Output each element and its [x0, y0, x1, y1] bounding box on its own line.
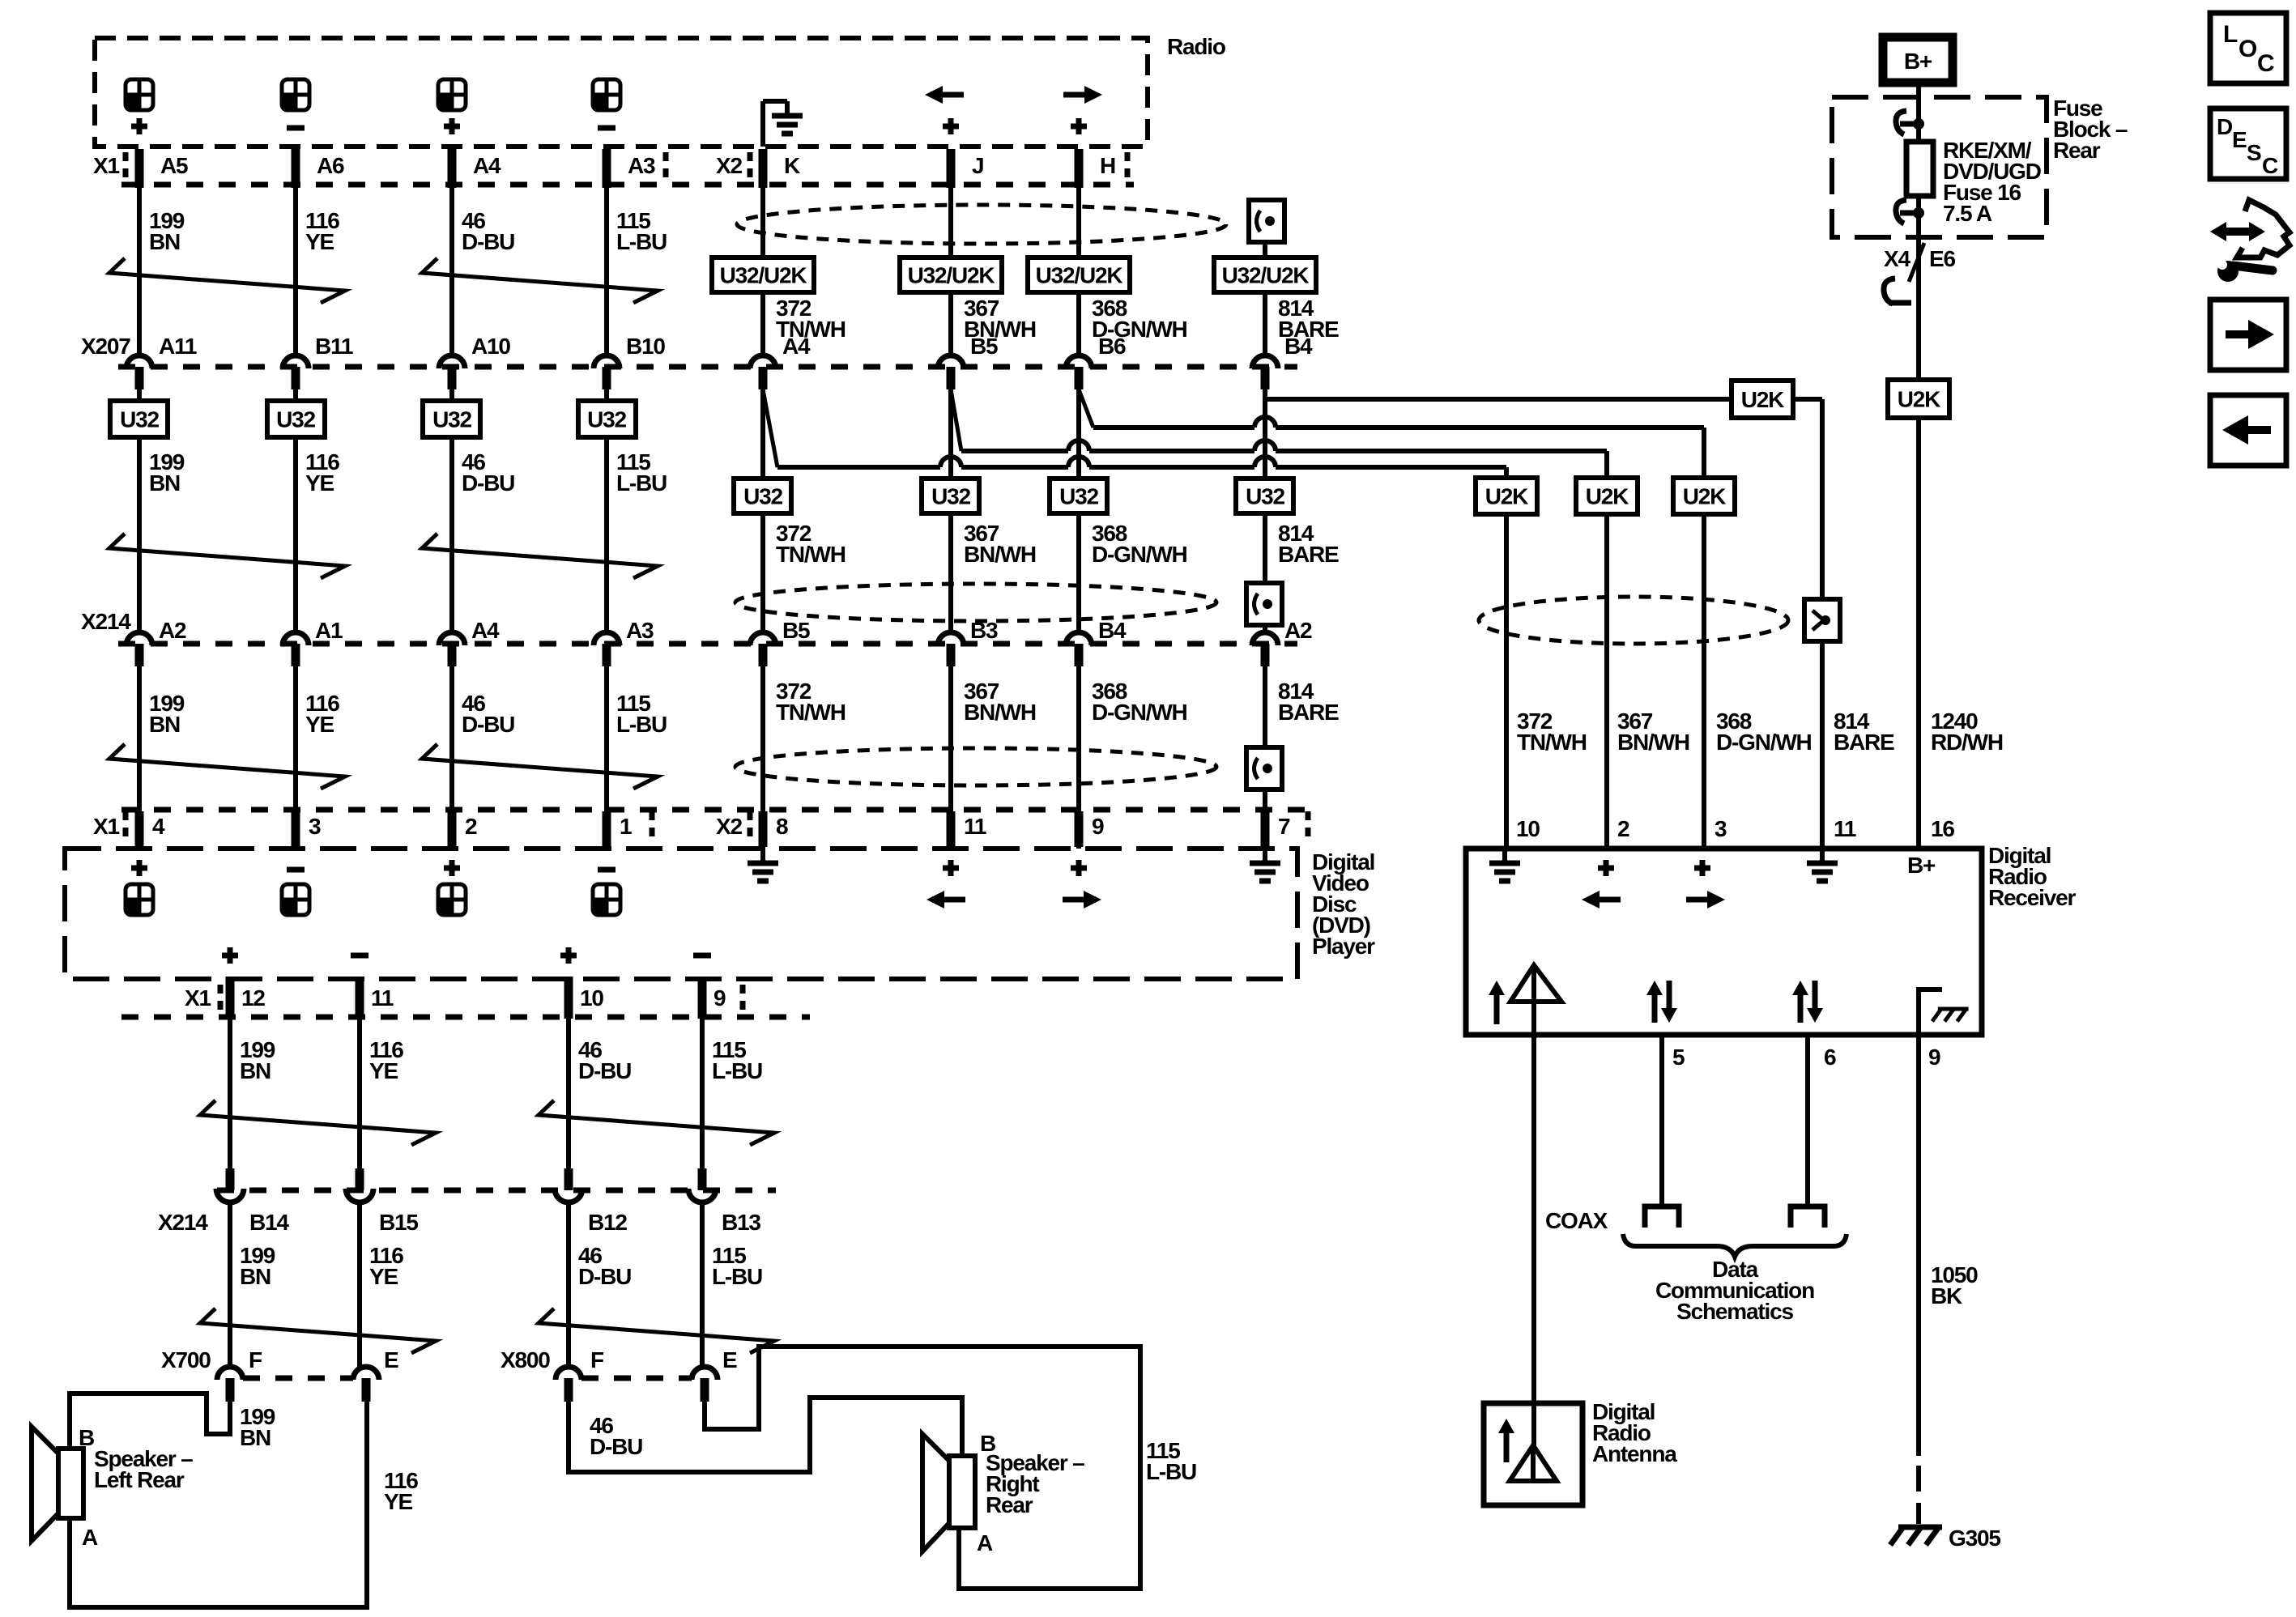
wire 1050 BK receiver pin 9 to ground [1916, 1035, 1921, 1456]
wire 199 BN X214 to DVD [137, 666, 142, 849]
svg-text:L-BU: L-BU [1146, 1459, 1196, 1484]
svg-text:YE: YE [369, 1264, 398, 1289]
DVD ground symbol pin 8 [760, 849, 765, 863]
X214 pin A3 bump [594, 632, 620, 645]
wire 116 YE speaker A to X700-E [70, 1402, 367, 1607]
data communication brace [1623, 1234, 1847, 1257]
svg-text:A: A [82, 1525, 98, 1550]
shield drain connector square row 1 [1249, 200, 1284, 242]
fuse block rear dashed box [1832, 97, 2047, 237]
svg-text:YE: YE [369, 1058, 398, 1083]
icon box forward arrow [2210, 300, 2286, 370]
DVD speaker icon col 4 [593, 884, 620, 915]
DVD top pin stub col 5 [759, 811, 768, 847]
receiver ground symbol pin 10 [1502, 849, 1507, 863]
speaker icon in radio col 2 [282, 79, 309, 110]
wire 1240 RD/WH U2K to receiver pin 16 [1916, 418, 1921, 849]
digital radio receiver box [1466, 849, 1982, 1035]
wire 367 BN/WH U2K to receiver pin 2 [1604, 514, 1609, 849]
svg-text:A4: A4 [782, 334, 811, 359]
chassis ground G305 symbol [1898, 1525, 1942, 1530]
speaker icon in radio col 1 [126, 79, 153, 110]
svg-text:E: E [722, 1347, 737, 1372]
wire 372 TN/WH X214 to DVD [760, 666, 765, 849]
X214 pin A4 bump [439, 632, 465, 645]
wire 115 L-BU speaker A to X800-E [705, 1347, 1140, 1589]
svg-text:Radio: Radio [1167, 34, 1226, 59]
svg-text:A2: A2 [159, 618, 186, 643]
receiver antenna symbol [1510, 965, 1561, 1002]
svg-text:L: L [2223, 21, 2238, 48]
svg-text:C: C [2257, 50, 2274, 77]
data link terminator pin 5 [1645, 1206, 1679, 1228]
svg-text:B4: B4 [1284, 334, 1313, 359]
svg-text:3: 3 [309, 814, 321, 839]
separator after A3 [663, 152, 669, 181]
connector X700 dashed line [243, 1376, 353, 1381]
svg-text:16: 16 [1931, 816, 1954, 841]
svg-text:11: 11 [964, 814, 986, 839]
svg-text:6: 6 [1824, 1045, 1836, 1070]
DVD player dashed enclosure box [65, 849, 1297, 979]
svg-text:1: 1 [620, 814, 632, 839]
svg-text:BN/WH: BN/WH [964, 700, 1036, 725]
wire 116 YE X214 to DVD [293, 666, 298, 849]
wire 368 D-GN/WH U32 to X214 [1076, 513, 1081, 631]
U32 option box col 2 [293, 389, 298, 401]
DVD bottom pin stub col 3 [564, 977, 573, 1019]
wire 367 BN/WH vertical X207 to U32 [948, 389, 953, 479]
option box U2K col 368 [1673, 478, 1735, 514]
DVD bottom polarity col 2 [351, 953, 368, 959]
svg-text:B6: B6 [1098, 334, 1126, 359]
svg-text:B11: B11 [315, 334, 353, 359]
X214 pin B15 stub [356, 1168, 364, 1190]
wire B+ to fuse block [1916, 83, 1921, 142]
speaker right rear icon [949, 1456, 975, 1528]
wire 814 BARE vertical X207 to U32 [1263, 389, 1267, 479]
DVD right arrow [1063, 897, 1085, 903]
svg-text:U32: U32 [1246, 484, 1284, 509]
U32 option box col 3 [449, 389, 454, 401]
wire 368 D-GN/WH U2K to receiver pin 3 [1702, 514, 1706, 849]
polarity sign [598, 126, 616, 131]
X214 pin B4 bump [1066, 632, 1092, 645]
wire 368 D-GN/WH radio to U32/U2K [1076, 188, 1081, 257]
wire 199 BN X700-F to speaker B [70, 1394, 230, 1449]
wire fuse to clip lower [1916, 196, 1921, 237]
receiver plus sign pin 3 [1694, 866, 1710, 871]
X214 pin B3 bump [938, 632, 964, 645]
svg-text:U32: U32 [276, 407, 315, 432]
svg-text:BN: BN [240, 1264, 270, 1289]
svg-text:U2K: U2K [1683, 484, 1726, 509]
option box U32/U2K col 6 [900, 257, 1002, 292]
bus continues to corner [1793, 397, 1822, 402]
svg-text:X2: X2 [716, 153, 742, 178]
svg-text:U32: U32 [120, 407, 159, 432]
connector X800 dashed line [581, 1376, 692, 1381]
option box U32/U2K col 8 [1214, 257, 1316, 292]
X207 pin B6 bump [1066, 355, 1092, 368]
option box U32/U2K col 5 [712, 257, 814, 292]
svg-text:A2: A2 [1284, 618, 1312, 643]
svg-text:U32/U2K: U32/U2K [720, 263, 807, 288]
svg-text:A11: A11 [159, 334, 197, 359]
svg-text:B13: B13 [722, 1210, 760, 1235]
wire 367 diagonal branch [951, 389, 961, 451]
X214 pin A1 bump [283, 632, 309, 645]
icon box LOC [2210, 13, 2286, 83]
svg-text:COAX: COAX [1545, 1208, 1608, 1233]
twisted pair symbol lower row2 cols 1-2 [200, 1308, 436, 1353]
separator X1 bottom [218, 985, 224, 1014]
receiver ground symbol pin 11 [1820, 849, 1825, 863]
svg-text:BARE: BARE [1278, 700, 1339, 725]
fuse clip lower [1896, 200, 1906, 223]
X207 pin B11 bump [283, 355, 309, 368]
svg-text:U2K: U2K [1741, 387, 1784, 412]
wire 46 D-BU X214 to DVD [449, 666, 454, 849]
speaker left rear icon [58, 1449, 83, 1518]
lower wire 199 BN DVD to X214 [228, 1019, 232, 1170]
option box U2K on battery feed [1888, 380, 1949, 418]
icon box back arrow [2210, 395, 2286, 466]
svg-text:L-BU: L-BU [616, 470, 667, 496]
svg-text:BARE: BARE [1834, 730, 1894, 755]
X214 pin B15 bump [346, 1189, 373, 1202]
receiver left arrow [1598, 897, 1621, 903]
svg-text:B14: B14 [249, 1210, 289, 1235]
svg-text:D-GN/WH: D-GN/WH [1716, 730, 1812, 755]
twisted pair symbol lower cols 1-2 [200, 1100, 436, 1145]
svg-text:A1: A1 [315, 618, 343, 643]
wire 368 diagonal branch [1079, 389, 1093, 428]
X700 pin F bump [217, 1367, 243, 1380]
DVD plus sign pin 11 [943, 866, 959, 871]
fuse RKE/XM/DVD/UGD Fuse 16 7.5A element [1906, 142, 1933, 196]
U32 option box col 6 [922, 479, 979, 513]
lower wire 116 YE DVD to X214 [357, 1019, 362, 1170]
shield ellipse row 2 [735, 584, 1216, 621]
svg-text:Rear: Rear [986, 1492, 1033, 1517]
DVD polarity sign col 1 [131, 866, 147, 871]
svg-text:X207: X207 [81, 334, 130, 359]
svg-text:D-BU: D-BU [462, 470, 514, 496]
X207 pin B5 bump [938, 355, 964, 368]
svg-text:X214: X214 [158, 1210, 208, 1235]
separator X2 DVD [748, 811, 753, 840]
X207 pin B4 stub [1261, 367, 1270, 389]
svg-text:F: F [249, 1347, 262, 1372]
wire 116 YE radio to X207 [293, 188, 298, 354]
DVD bottom pin stub col 1 [226, 977, 235, 1019]
svg-text:L-BU: L-BU [712, 1264, 762, 1289]
svg-text:2: 2 [465, 814, 477, 839]
svg-text:RD/WH: RD/WH [1931, 730, 2003, 755]
svg-text:BN: BN [149, 712, 180, 737]
svg-text:BN: BN [149, 229, 180, 254]
X207 pin B5 stub [947, 367, 956, 389]
receiver antenna up arrow [1494, 994, 1500, 1024]
svg-text:BN: BN [240, 1425, 270, 1450]
svg-text:X1: X1 [93, 814, 119, 839]
DVD polarity sign col 4 [598, 867, 616, 873]
svg-text:X800: X800 [501, 1347, 550, 1372]
svg-text:H: H [1100, 153, 1115, 178]
connector X207 dashed line [118, 364, 1297, 370]
shield ellipse right group [1479, 597, 1788, 644]
svg-text:D-BU: D-BU [578, 1058, 631, 1083]
U32 option box col 4 [604, 389, 609, 401]
X214 pin B14 stub [226, 1168, 235, 1190]
svg-text:12: 12 [241, 985, 265, 1011]
X214 pin A2 bump [1252, 632, 1278, 645]
X700 pin E bump [353, 1367, 379, 1380]
svg-text:YE: YE [384, 1489, 412, 1514]
separator X2 [748, 152, 753, 181]
svg-text:X700: X700 [161, 1347, 211, 1372]
svg-text:3: 3 [1715, 816, 1727, 841]
svg-text:4: 4 [152, 814, 165, 839]
wire 372 to X207 [760, 292, 765, 354]
svg-text:B10: B10 [626, 334, 665, 359]
wire 199 BN U32 to X214 [137, 437, 142, 631]
X207 pin A11 bump [126, 355, 152, 368]
wire 814 BARE square to U32/U2K box [1263, 242, 1267, 257]
X207 pin B11 stub [292, 367, 300, 389]
X214 pin B12 stub [564, 1168, 573, 1190]
svg-text:D-BU: D-BU [462, 712, 514, 737]
DVD X1/X2 connector dashed line [121, 807, 1312, 813]
shield drain connector square right group [1804, 599, 1840, 641]
DVD left arrow [943, 897, 965, 903]
wire fuse block to U2K [1916, 237, 1921, 380]
lower wire 46 D-BU DVD to X214 [566, 1019, 571, 1170]
svg-text:D-BU: D-BU [578, 1264, 631, 1289]
U32 option box col 5 [734, 479, 791, 513]
svg-text:Left Rear: Left Rear [94, 1467, 185, 1492]
svg-text:BN/WH: BN/WH [1617, 730, 1689, 755]
DVD top pin stub col 7 [1075, 811, 1084, 847]
svg-text:E: E [384, 1347, 398, 1372]
svg-text:X1: X1 [93, 153, 119, 178]
coax wire receiver to antenna [1531, 1035, 1536, 1445]
svg-text:E: E [2232, 127, 2247, 152]
svg-text:D-BU: D-BU [462, 229, 514, 254]
DVD top pin stub col 8 [1261, 811, 1270, 847]
shield ellipse row 1 [737, 205, 1226, 244]
DVD bottom polarity col 1 [222, 953, 238, 959]
lower wire 115 L-BU DVD to X214 [700, 1019, 705, 1170]
receiver internal ground pin 9 [1919, 989, 1942, 1035]
svg-text:U32/U2K: U32/U2K [1036, 263, 1123, 288]
separator after H [1125, 152, 1131, 181]
svg-text:D: D [2217, 114, 2233, 139]
radio pin stub wire col 3 [448, 149, 457, 188]
svg-text:B+: B+ [1907, 853, 1936, 878]
DVD bottom pin stub col 4 [698, 977, 707, 1019]
svg-text:B12: B12 [588, 1210, 627, 1235]
svg-text:U32: U32 [587, 407, 626, 432]
twisted pair symbol lower row2 cols 3-4 [539, 1308, 774, 1353]
DVD top pin stub col 1 [135, 811, 144, 847]
bus 367 BN/WH to U2K [961, 449, 1068, 453]
svg-text:G305: G305 [1949, 1526, 2000, 1551]
DVD bottom polarity col 3 [560, 953, 577, 959]
twisted pair symbol cols 3-4 row 3 [422, 744, 658, 789]
svg-text:F: F [590, 1347, 604, 1372]
X214 pin A2 stub [1261, 644, 1270, 666]
X214 pin B5 bump [750, 632, 776, 645]
svg-text:A3: A3 [626, 618, 654, 643]
svg-text:YE: YE [305, 470, 334, 496]
X4/E6 pass-through diagonal [1909, 243, 1924, 282]
wire 372 diagonal branch [763, 389, 777, 467]
svg-text:B5: B5 [970, 334, 998, 359]
wire 814 BARE X214 to DVD [1263, 666, 1267, 849]
speaker icon in radio col 4 [593, 79, 620, 110]
X214 pin B14 bump [216, 1189, 244, 1202]
svg-text:X4: X4 [1884, 246, 1910, 271]
svg-text:10: 10 [1516, 816, 1540, 841]
svg-text:U32/U2K: U32/U2K [908, 263, 995, 288]
separator after pin 9 bottom [740, 985, 746, 1014]
svg-text:BN: BN [240, 1058, 270, 1083]
X207 pin A10 stub [448, 367, 457, 389]
svg-text:BN/WH: BN/WH [964, 542, 1036, 567]
DVD bottom polarity col 4 [693, 953, 711, 959]
option box U2K col 367 [1576, 478, 1638, 514]
DVD top pin stub col 2 [292, 811, 300, 847]
wire 116 YE X214 to speaker connector [357, 1205, 362, 1367]
receiver plus sign pin 2 [1598, 866, 1614, 871]
svg-text:D-GN/WH: D-GN/WH [1092, 700, 1187, 725]
fuse clip upper [1896, 111, 1906, 134]
svg-text:X2: X2 [716, 814, 742, 839]
svg-text:O: O [2238, 36, 2257, 62]
radio connector dashed line [121, 182, 1134, 188]
option box U32/U2K col 7 [1028, 257, 1130, 292]
shield drain connector square row 2 [1246, 583, 1282, 625]
X214 pin A4 stub [448, 644, 457, 666]
svg-text:D-BU: D-BU [590, 1434, 642, 1459]
separator after pin 7 [1306, 811, 1311, 840]
wire 814 to X207 [1263, 292, 1267, 354]
receiver data arrows pin 5 [1652, 994, 1658, 1023]
twisted pair symbol cols 3-4 row 1 [422, 258, 658, 303]
svg-text:Schematics: Schematics [1676, 1299, 1793, 1324]
svg-text:J: J [972, 153, 983, 178]
svg-text:BARE: BARE [1278, 542, 1339, 567]
X800 pin E bump [692, 1367, 718, 1380]
X214 pin A2 bump [126, 632, 152, 645]
bus 368 D-GN/WH to U2K [1093, 425, 1254, 430]
svg-text:U2K: U2K [1485, 484, 1528, 509]
X800 pin F stub [564, 1378, 573, 1402]
X214 pin A1 stub [292, 644, 300, 666]
left arrow inside radio (pin J) [941, 92, 964, 98]
svg-text:7.5 A: 7.5 A [1943, 201, 1992, 226]
svg-text:9: 9 [1928, 1045, 1940, 1070]
svg-text:X1: X1 [185, 985, 211, 1011]
radio dashed enclosure box [95, 38, 1148, 147]
twisted pair symbol cols 1-2 row 3 [109, 744, 345, 789]
wire 372 TN/WH U32 to X214 [760, 513, 765, 631]
data link terminator pin 6 [1791, 1206, 1825, 1228]
svg-text:BN: BN [149, 470, 180, 496]
wire 46 D-BU X800-F to speaker B [569, 1398, 962, 1472]
svg-text:9: 9 [1092, 814, 1104, 839]
DVD speaker icon col 1 [126, 884, 153, 915]
svg-text:D-GN/WH: D-GN/WH [1092, 542, 1187, 567]
power feed B+ box [1883, 37, 1953, 83]
radio pin stub wire col 6 [947, 149, 956, 188]
DVD top pin stub col 4 [603, 811, 611, 847]
wire 372 TN/WH radio to U32/U2K [760, 188, 765, 257]
X4 clip symbol [1884, 279, 1895, 304]
DVD polarity sign col 3 [444, 866, 460, 871]
polarity sign [444, 124, 460, 130]
antenna box symbol [1510, 1445, 1557, 1481]
svg-text:7: 7 [1278, 814, 1290, 839]
shield ellipse row 3 [735, 748, 1216, 785]
svg-text:YE: YE [305, 712, 334, 737]
speaker icon in radio col 3 [438, 79, 466, 110]
wire receiver pin 6 to data link [1805, 1035, 1810, 1206]
svg-text:U32: U32 [743, 484, 782, 509]
svg-text:TN/WH: TN/WH [776, 542, 846, 567]
svg-text:U2K: U2K [1586, 484, 1629, 509]
svg-text:A4: A4 [473, 153, 501, 178]
DVD top pin stub col 3 [448, 811, 457, 847]
svg-text:U32/U2K: U32/U2K [1222, 263, 1310, 288]
wire 367 BN/WH X214 to DVD [948, 666, 953, 849]
radio pin stub wire col 4 [603, 149, 611, 188]
X214 pin B4 stub [1075, 644, 1084, 666]
svg-text:2: 2 [1617, 816, 1629, 841]
wire 199 BN X214 to speaker connector [228, 1205, 232, 1367]
X214 pin B12 bump [555, 1189, 582, 1202]
U32 option box col 1 [137, 389, 142, 401]
svg-text:S: S [2247, 140, 2261, 165]
option box U2K on 814 bus [1732, 381, 1793, 418]
X800 pin F bump [556, 1367, 581, 1380]
svg-text:L-BU: L-BU [616, 712, 667, 737]
wire 46 D-BU U32 to X214 [449, 437, 454, 631]
wire 368 D-GN/WH down to U2K box [1702, 428, 1706, 478]
DVD ground symbol pin 7 [1263, 849, 1267, 863]
radio pin stub wire col 7 [1075, 149, 1084, 188]
svg-text:Player: Player [1312, 934, 1375, 959]
right arrow inside radio (pin H) [1063, 92, 1086, 98]
svg-text:L-BU: L-BU [712, 1058, 762, 1083]
plus sign pin J [943, 124, 959, 130]
separator after pin 1 [650, 811, 655, 840]
svg-text:BK: BK [1931, 1283, 1962, 1308]
X214 pin B13 bump [688, 1189, 716, 1202]
receiver right arrow [1686, 897, 1709, 903]
svg-text:C: C [2262, 153, 2278, 178]
wire 115 L-BU U32 to X214 [604, 437, 609, 631]
svg-text:U32: U32 [1059, 484, 1098, 509]
wire receiver pin 5 to data link [1659, 1035, 1664, 1206]
DVD plus sign pin 9 [1071, 866, 1087, 871]
wire 115 L-BU X214 to DVD [604, 666, 609, 849]
connector X214 dashed line [118, 641, 1297, 647]
X214 pin B13 stub [698, 1168, 707, 1190]
bus 814 BARE to U2K (fuse side) [1265, 397, 1732, 402]
